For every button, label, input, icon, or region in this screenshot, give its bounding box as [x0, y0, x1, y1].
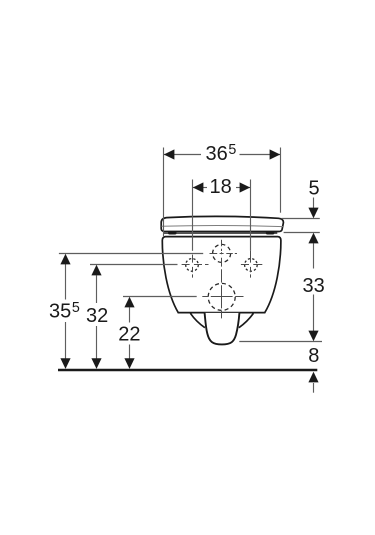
extension lines over the ceramic	[164, 148, 281, 251]
extension line right of 18 (to right fixing hole)	[250, 180, 252, 251]
toilet lid outline	[161, 216, 283, 231]
outlet outer curve left	[190, 313, 205, 327]
extension line to water supply hole	[59, 253, 203, 255]
right fixing hole (dashed circle)	[245, 259, 258, 272]
dimension 33 (right)	[239, 295, 322, 342]
arrowheads 18	[193, 182, 250, 192]
svg-text:8: 8	[308, 345, 319, 367]
extension line top of lid	[282, 218, 320, 220]
outlet spigot (inner U)	[205, 313, 240, 345]
left fixing hole (dashed circle)	[186, 259, 199, 272]
flush pipe hole (large dashed circle)	[208, 283, 235, 310]
toilet bowl body	[162, 237, 281, 313]
seat buffer right	[266, 231, 275, 234]
dimension 35.5 (left)	[59, 254, 203, 359]
arrowheads 36.5	[164, 149, 280, 159]
dimension 5 (right top)	[282, 198, 320, 269]
floor line	[58, 369, 317, 371]
dimension 36.5 line	[164, 154, 281, 156]
dimension 8 arrow below floor	[313, 383, 315, 393]
water supply hole (middle dashed circle)	[213, 244, 231, 262]
svg-text:32: 32	[86, 305, 108, 327]
svg-text:33: 33	[303, 275, 325, 297]
middle hole crosshair	[210, 240, 238, 278]
dimension 18 line	[193, 187, 251, 189]
seat buffer left	[168, 231, 177, 234]
svg-text:5: 5	[309, 178, 320, 200]
svg-text:365: 365	[206, 142, 237, 165]
seat gap line inside lid	[161, 226, 283, 227]
extension line bottom of outlet	[239, 341, 322, 343]
arrowhead 5 down	[308, 208, 318, 219]
dimension 22 (left, to flush pipe)	[123, 297, 197, 359]
arrowhead 33 down	[308, 331, 318, 342]
seat lip line under lid	[164, 232, 277, 234]
extension line bottom of lid	[284, 232, 320, 234]
extension line left of 36.5	[163, 148, 165, 237]
left fixing hole crosshair	[182, 255, 209, 278]
svg-text:355: 355	[49, 300, 80, 323]
extension line left of 18 (to left fixing hole)	[192, 180, 194, 251]
outlet outer curve right	[239, 313, 254, 327]
extension line right of 36.5	[280, 148, 282, 213]
arrowhead 33 up	[308, 233, 318, 244]
dimension 32 (left, to fixing holes)	[90, 265, 178, 359]
large hole crosshair	[202, 277, 243, 319]
extension line to left fixing hole	[90, 264, 178, 266]
svg-text:18: 18	[210, 176, 232, 198]
right fixing hole crosshair	[241, 251, 262, 278]
extension line to flush pipe hole	[123, 296, 197, 298]
svg-text:22: 22	[118, 324, 140, 346]
